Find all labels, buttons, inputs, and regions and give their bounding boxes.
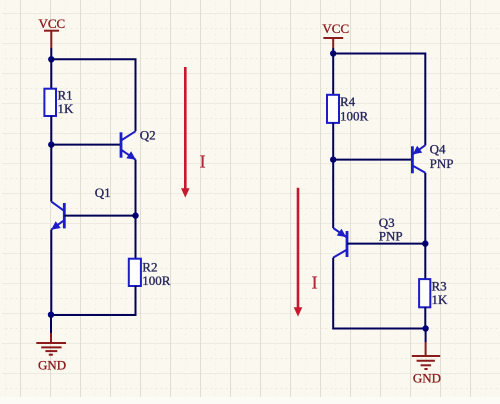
node D junction dot — [48, 312, 54, 318]
node H junction dot — [422, 325, 428, 331]
wire node F to Q3 emitter — [332, 160, 334, 228]
svg-text:VCC: VCC — [322, 21, 349, 36]
wire R1 to node B — [50, 116, 52, 145]
wire node F to Q4 base — [333, 159, 412, 161]
resistor R4 — [327, 95, 339, 123]
power symbol VCC (left) — [44, 31, 59, 48]
wire Q1 base to node C — [64, 215, 135, 217]
svg-text:PNP: PNP — [430, 156, 454, 171]
node G junction dot — [422, 240, 428, 246]
svg-text:GND: GND — [38, 358, 66, 373]
wire Q3 base to node G — [347, 243, 425, 245]
wire R3 to node H — [424, 307, 426, 328]
svg-text:GND: GND — [413, 370, 441, 385]
svg-text:Q2: Q2 — [140, 128, 156, 143]
wire node D to GND stem — [50, 315, 52, 333]
power symbol VCC (right) — [323, 38, 343, 48]
resistor R2 — [129, 259, 141, 286]
wire VCC stem to node A — [50, 48, 52, 59]
svg-text:100R: 100R — [340, 108, 369, 123]
node F junction dot — [330, 156, 336, 162]
current arrow I (right) — [294, 188, 303, 317]
svg-text:100R: 100R — [142, 273, 171, 288]
node A junction dot — [48, 56, 54, 62]
wire node C to R2 — [135, 216, 137, 259]
transistor Q3 (PNP, mirrored) — [333, 228, 347, 258]
wire node B to Q1 collector — [50, 145, 52, 202]
svg-text:1K: 1K — [58, 101, 75, 116]
svg-text:Q4: Q4 — [430, 142, 446, 157]
wire R4 to node F — [332, 123, 334, 160]
ground symbol (left) — [36, 333, 66, 355]
svg-text:PNP: PNP — [379, 228, 403, 243]
wire top rail right circuit — [333, 54, 425, 146]
resistor R3 — [419, 279, 430, 307]
wire R2 to bottom rail — [51, 286, 135, 315]
wire node H to GND stem — [425, 329, 427, 343]
wire node E to R4 — [332, 54, 334, 95]
resistor R1 — [44, 89, 56, 116]
wire Q3 collector to bottom rail — [333, 258, 425, 329]
wire Q1 emitter to node D — [50, 230, 52, 315]
wire top rail left circuit — [51, 59, 135, 131]
wire VCC stem to node E — [332, 48, 334, 54]
wire node A to R1 — [50, 59, 52, 88]
wire node G to R3 — [424, 244, 426, 280]
node E junction dot — [330, 50, 336, 56]
transistor Q2 (NPN) — [121, 131, 136, 160]
wire Q4 collector to node G — [424, 173, 426, 244]
svg-text:VCC: VCC — [39, 16, 66, 31]
transistor Q1 (NPN, mirrored) — [51, 202, 64, 230]
svg-text:I: I — [312, 273, 318, 293]
svg-text:Q1: Q1 — [95, 185, 111, 200]
svg-text:I: I — [200, 152, 206, 172]
current arrow I (left) — [181, 67, 190, 198]
svg-text:1K: 1K — [432, 292, 449, 307]
node B junction dot — [48, 141, 54, 147]
svg-text:R4: R4 — [340, 94, 356, 109]
wire Q2 emitter to node C — [135, 160, 137, 216]
transistor Q4 (PNP) — [412, 145, 425, 173]
ground symbol (right) — [412, 342, 440, 369]
wire node B to Q2 base — [51, 144, 121, 146]
node C junction dot — [132, 212, 138, 218]
